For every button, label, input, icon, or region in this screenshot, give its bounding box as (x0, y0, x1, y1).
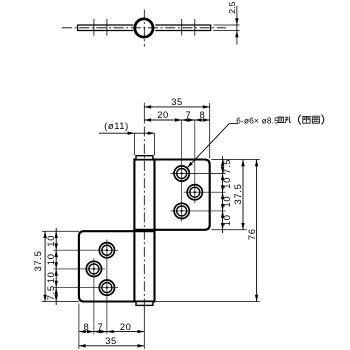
svg-text:37.5: 37.5 (32, 250, 43, 271)
svg-text:35: 35 (171, 96, 182, 107)
svg-text:7.5: 7.5 (45, 285, 56, 300)
svg-text:8: 8 (199, 109, 205, 120)
svg-text:10: 10 (45, 253, 56, 265)
svg-text:35: 35 (105, 335, 116, 346)
svg-text:37.5: 37.5 (232, 183, 243, 204)
svg-text:6-ø6× ø8.5: 6-ø6× ø8.5 (236, 116, 279, 125)
svg-text:10: 10 (221, 196, 232, 208)
svg-text:2.5: 2.5 (227, 1, 237, 13)
svg-text:20: 20 (157, 109, 168, 120)
svg-text:7.5: 7.5 (221, 159, 232, 174)
svg-text:20: 20 (120, 321, 131, 332)
svg-text:7: 7 (98, 321, 104, 332)
svg-text:8: 8 (84, 321, 90, 332)
svg-text:76: 76 (246, 228, 257, 240)
svg-text:10: 10 (45, 235, 56, 247)
svg-text:10: 10 (45, 271, 56, 283)
svg-text:7: 7 (185, 109, 191, 120)
svg-text:(ø11): (ø11) (104, 120, 129, 131)
svg-text:10: 10 (221, 214, 232, 226)
svg-text:10: 10 (221, 177, 232, 189)
